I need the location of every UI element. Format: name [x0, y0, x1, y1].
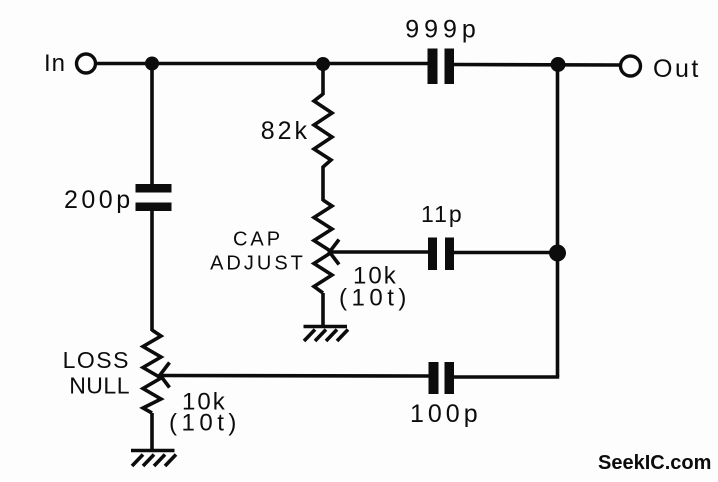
watermark SeekIC.com: [598, 452, 711, 474]
label In: [44, 50, 66, 77]
wire right rail bottom corner: [454, 375, 559, 379]
svg-text:11p: 11p: [421, 201, 464, 227]
resistor 82k: [314, 94, 332, 167]
node at right rail: [549, 245, 566, 262]
svg-text:(10t): (10t): [169, 410, 241, 437]
wire 200p to LOSS NULL pot: [150, 211, 154, 332]
value label (10t) (CAP ADJUST): [339, 285, 411, 312]
wire top left (In to 999p): [96, 62, 429, 66]
svg-text:(10t): (10t): [339, 285, 411, 312]
value label 200p: [64, 186, 134, 214]
svg-text:LOSS: LOSS: [63, 347, 130, 373]
wire LOSS NULL pot to ground: [150, 413, 154, 449]
svg-text:In: In: [44, 50, 66, 77]
capacitor 11p: [428, 238, 454, 271]
node at In branch: [145, 57, 159, 71]
terminal Out: [621, 56, 641, 76]
capacitor 100p: [429, 362, 455, 394]
node at 82k branch: [316, 57, 330, 71]
wiper arrow LOSS NULL: [160, 363, 170, 388]
wire 82k to CAP ADJUST pot: [321, 166, 325, 201]
wire right rail vertical: [556, 65, 560, 378]
value label 10k (CAP ADJUST): [353, 263, 398, 290]
label NULL: [69, 373, 130, 399]
ground (CAP ADJUST): [304, 327, 349, 342]
label Out: [653, 55, 701, 83]
potentiometer CAP ADJUST 10k (10t) body: [314, 200, 332, 293]
value label (10t) (LOSS NULL): [169, 410, 241, 437]
svg-text:100p: 100p: [410, 400, 482, 428]
wire left branch down to 200p: [150, 64, 154, 185]
value label 10k (LOSS NULL): [182, 389, 227, 416]
node at output branch: [551, 57, 566, 72]
svg-text:SeekIC.com: SeekIC.com: [598, 452, 711, 474]
svg-text:999p: 999p: [405, 16, 481, 44]
value label 999p: [405, 16, 481, 44]
label ADJUST: [210, 253, 306, 275]
value label 100p: [410, 400, 482, 428]
terminal In: [77, 54, 96, 73]
wire 11p to right rail: [454, 251, 558, 255]
svg-text:Out: Out: [653, 55, 701, 83]
label CAP: [233, 229, 283, 251]
ground (LOSS NULL): [131, 451, 176, 467]
wire wiper LOSS NULL to 100p: [160, 374, 429, 378]
potentiometer LOSS NULL 10k (10t) body: [143, 330, 161, 413]
wire 82k branch top: [321, 64, 325, 95]
wire wiper to 11p: [330, 250, 429, 254]
value label 82k: [261, 117, 310, 145]
svg-text:CAP: CAP: [233, 229, 283, 251]
wire CAP ADJUST pot to ground: [321, 293, 325, 325]
svg-text:200p: 200p: [64, 186, 134, 214]
label LOSS: [63, 347, 130, 373]
capacitor 200p: [136, 184, 172, 211]
svg-text:82k: 82k: [261, 117, 310, 145]
wiper arrow CAP ADJUST: [330, 240, 340, 265]
svg-text:NULL: NULL: [69, 373, 130, 399]
capacitor 999p: [428, 49, 455, 85]
value label 11p: [421, 201, 464, 227]
svg-text:ADJUST: ADJUST: [210, 253, 306, 275]
wire top right (999p to Out): [454, 63, 620, 67]
